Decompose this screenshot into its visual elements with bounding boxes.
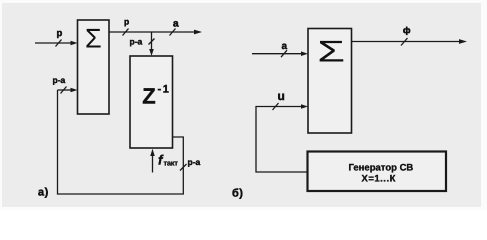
summator U2 (sigma block) — [308, 29, 352, 134]
svg-text:p-a: p-a — [130, 37, 143, 47]
svg-text:a: a — [282, 41, 288, 52]
svg-text:Х=1...К: Х=1...К — [362, 174, 396, 185]
svg-text:б): б) — [232, 188, 243, 200]
bus slash on input a — [281, 50, 287, 57]
bus slash on output — [401, 38, 408, 46]
svg-text:-1: -1 — [158, 84, 171, 96]
wire U1 output to arrow — [109, 30, 202, 35]
delay block Z^-1 — [130, 56, 173, 148]
svg-text:Σ: Σ — [317, 36, 345, 69]
bus slash on input p — [56, 40, 62, 47]
label f_takt — [158, 153, 178, 168]
svg-text:p-a: p-a — [53, 75, 66, 85]
wire junction down to Z^-1 — [149, 32, 154, 56]
svg-text:a: a — [173, 19, 179, 30]
svg-text:Σ: Σ — [85, 24, 102, 54]
bus slash on feedback wire — [180, 164, 187, 171]
bus slash on input p-a — [61, 87, 67, 94]
wire U2 output — [352, 39, 468, 44]
svg-text:Генератор СВ: Генератор СВ — [349, 163, 414, 174]
generator block: Generator SV X=1...K — [308, 152, 447, 192]
svg-text:p-a: p-a — [188, 157, 201, 167]
bus slash under label p (output) — [123, 29, 129, 36]
wire input u to U2 — [256, 104, 308, 172]
wire input p-a to U1 — [58, 88, 78, 93]
svg-text:p: p — [57, 28, 63, 39]
svg-text:такт: такт — [164, 159, 179, 168]
svg-text:u: u — [278, 89, 285, 103]
bus slash on junction wire — [149, 39, 155, 45]
svg-text:p: p — [124, 17, 129, 27]
svg-text:а): а) — [38, 187, 49, 199]
svg-text:Z: Z — [142, 84, 155, 109]
summator U1 (sigma block) — [78, 20, 110, 114]
svg-text:ф: ф — [403, 25, 411, 35]
wire clock f_takt into Z^-1 — [150, 149, 155, 173]
wire input p to U1 — [35, 41, 78, 46]
wire input a to U2 — [252, 51, 308, 56]
bus slash under label a (output) — [170, 29, 176, 36]
wire feedback from Z^-1 to U1 input — [58, 90, 184, 194]
bus slash on input u — [273, 103, 279, 110]
